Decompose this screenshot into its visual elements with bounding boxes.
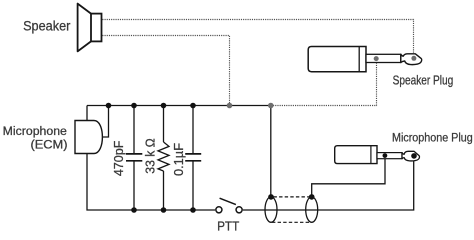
svg-text:PTT: PTT (217, 218, 239, 233)
svg-text:Microphone Plug: Microphone Plug (392, 131, 473, 145)
svg-text:0.1µF: 0.1µF (171, 143, 186, 176)
svg-text:Speaker Plug: Speaker Plug (393, 72, 454, 87)
svg-text:470pF: 470pF (111, 141, 126, 177)
svg-text:Speaker: Speaker (23, 19, 71, 34)
svg-text:33 k Ω: 33 k Ω (143, 138, 158, 174)
svg-text:(ECM): (ECM) (31, 137, 68, 151)
svg-text:Microphone: Microphone (3, 124, 67, 138)
